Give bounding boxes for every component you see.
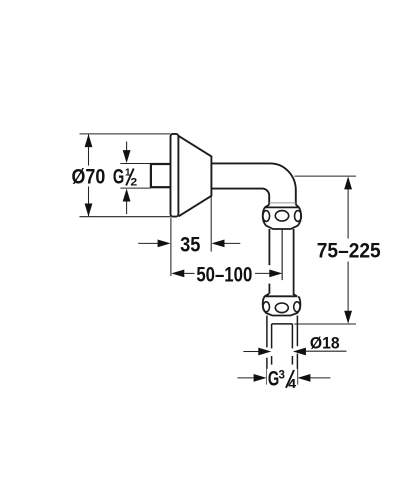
svg-text:Ø70: Ø70 (72, 165, 106, 189)
svg-text:50–100: 50–100 (196, 264, 252, 287)
svg-text:35: 35 (180, 233, 200, 257)
svg-text:4: 4 (288, 376, 296, 390)
svg-text:2: 2 (130, 176, 137, 188)
svg-text:G: G (113, 164, 124, 189)
svg-text:3: 3 (279, 369, 286, 382)
svg-text:Ø18: Ø18 (310, 334, 340, 353)
svg-text:75–225: 75–225 (317, 240, 381, 263)
